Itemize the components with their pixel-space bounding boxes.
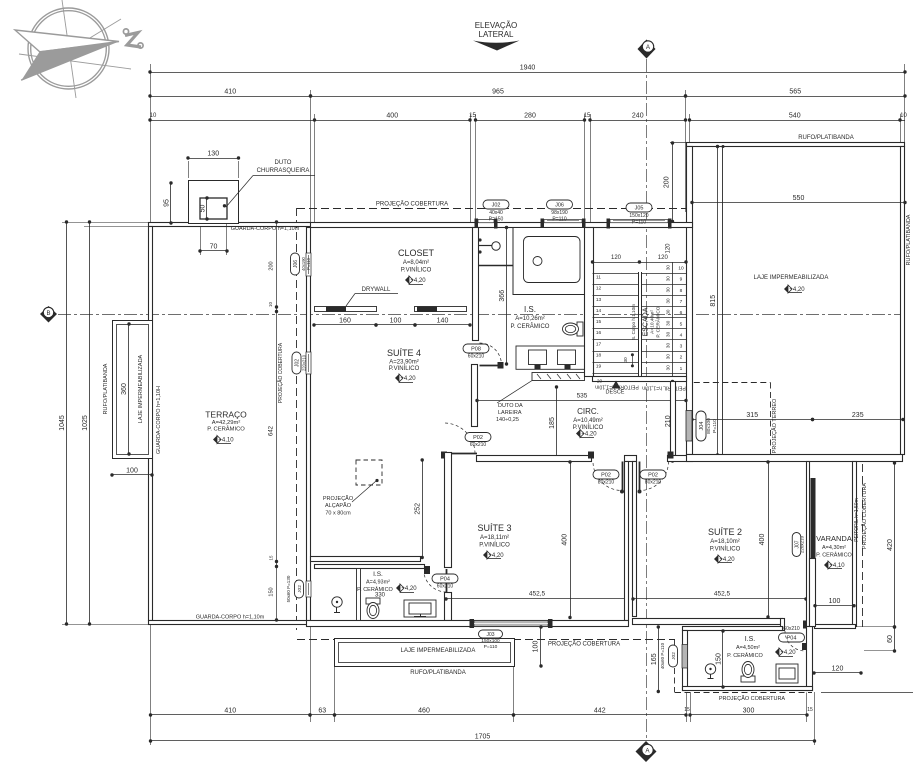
svg-text:80x100: 80x100	[706, 418, 712, 434]
varanda left wall	[807, 462, 813, 691]
svg-text:565: 565	[789, 89, 801, 96]
svg-text:LAREIRA: LAREIRA	[498, 410, 522, 416]
svg-text:PROJEÇÃO COBERTURA: PROJEÇÃO COBERTURA	[277, 342, 284, 403]
window J04 laje left wall	[686, 411, 718, 442]
door P04 bath2	[424, 569, 458, 592]
svg-text:70: 70	[210, 244, 218, 251]
svg-text:100: 100	[126, 468, 138, 475]
svg-text:150: 150	[269, 587, 275, 596]
svg-text:50x60 P=130: 50x60 P=130	[286, 575, 291, 602]
svg-text:LAJE IMPERMEABILIZADA: LAJE IMPERMEABILIZADA	[754, 275, 829, 281]
svg-text:7: 7	[680, 299, 683, 305]
svg-text:P02: P02	[648, 473, 658, 479]
dim 1045 left	[59, 220, 68, 625]
svg-text:30: 30	[666, 287, 671, 293]
varanda bottom wall	[810, 559, 856, 629]
svg-text:A=4,93m²: A=4,93m²	[366, 580, 390, 586]
bath1 lareira shelf	[532, 373, 585, 381]
svg-text:PROJEÇÃO: PROJEÇÃO	[323, 495, 354, 502]
svg-text:1025: 1025	[82, 415, 89, 431]
projecao alcapao	[323, 460, 382, 517]
svg-text:SUÍTE 3: SUÍTE 3	[477, 523, 511, 533]
svg-text:+4,10: +4,10	[829, 563, 845, 569]
svg-text:165: 165	[651, 653, 658, 665]
label rufo bottom	[410, 670, 466, 676]
svg-text:P. CERÂMICO: P. CERÂMICO	[207, 426, 245, 433]
dim 442 bottom	[512, 708, 688, 717]
svg-text:S. Corpo h.1,10m: S. Corpo h.1,10m	[631, 304, 636, 340]
svg-text:+4,20: +4,20	[488, 553, 504, 559]
window left wall upper	[291, 253, 312, 276]
svg-text:30: 30	[666, 320, 671, 326]
window J07 varanda	[792, 478, 815, 559]
svg-text:1940: 1940	[520, 65, 536, 72]
suites top wall	[477, 455, 903, 462]
section line A vertical dashed	[646, 59, 648, 738]
label peitoril varanda	[854, 498, 860, 542]
dim 540 top	[688, 113, 908, 122]
svg-text:SUÍTE 4: SUÍTE 4	[387, 348, 421, 358]
svg-text:J02: J02	[492, 203, 501, 209]
dashed projecao cobertura bottom	[297, 640, 675, 648]
svg-text:80x210: 80x210	[645, 480, 662, 486]
dim 95 chimney	[164, 181, 173, 224]
svg-text:815: 815	[710, 295, 717, 307]
svg-text:ELEVAÇÃO: ELEVAÇÃO	[475, 21, 518, 30]
svg-text:60x210: 60x210	[783, 626, 800, 632]
svg-text:A=23,90m²: A=23,90m²	[389, 360, 419, 366]
svg-text:18: 18	[596, 352, 602, 358]
svg-text:30: 30	[623, 357, 629, 363]
svg-text:P08: P08	[471, 347, 481, 353]
svg-text:315: 315	[746, 412, 758, 419]
svg-text:RUFO/PLATIBANDA: RUFO/PLATIBANDA	[410, 670, 466, 676]
svg-text:410: 410	[224, 708, 236, 715]
label projecao terreo	[771, 398, 778, 453]
label guarda-corpo top	[231, 226, 300, 232]
dashed projecao cobertura right	[861, 464, 868, 627]
svg-text:A=10,26m²: A=10,26m²	[515, 316, 545, 322]
svg-text:150x120: 150x120	[629, 213, 648, 219]
svg-text:+4,20: +4,20	[789, 287, 805, 293]
label projecao cobertura vertical left	[277, 342, 284, 403]
svg-text:200: 200	[664, 176, 671, 188]
bath3 walls	[683, 627, 813, 691]
svg-text:30: 30	[666, 354, 671, 360]
dim 315 laje	[690, 412, 814, 421]
dim 300 bottom	[684, 707, 813, 717]
svg-text:RUFO/PLATIBANDA: RUFO/PLATIBANDA	[103, 363, 109, 414]
room label VARANDA	[816, 534, 852, 569]
dim 100 strip	[110, 468, 153, 477]
svg-text:P.VINÍLICO: P.VINÍLICO	[389, 365, 420, 372]
svg-text:400: 400	[562, 534, 569, 546]
dim row 160 100 140	[312, 318, 471, 327]
svg-text:235: 235	[852, 412, 864, 419]
bath2 shower drain	[332, 597, 342, 613]
svg-text:300: 300	[743, 708, 755, 715]
svg-text:420: 420	[887, 539, 894, 551]
suite3 left wall	[445, 453, 452, 621]
svg-text:A=10,40m²: A=10,40m²	[650, 310, 656, 334]
stairs bottom wall	[593, 377, 687, 382]
dim 565 top	[684, 89, 907, 98]
stair number 20	[597, 379, 603, 385]
room label SUITE 2	[708, 527, 742, 563]
window J05 opening	[607, 219, 672, 229]
svg-text:A=18,10m²: A=18,10m²	[710, 539, 740, 545]
svg-text:360: 360	[121, 383, 128, 395]
stair treads right flight	[642, 274, 687, 374]
svg-text:240: 240	[632, 113, 644, 120]
room label CIRC	[573, 407, 604, 438]
svg-text:30: 30	[666, 298, 671, 304]
svg-text:1705: 1705	[475, 734, 491, 741]
stair treads left flight	[593, 274, 640, 374]
svg-text:P=110: P=110	[552, 217, 566, 223]
svg-text:120: 120	[658, 255, 669, 261]
svg-text:30: 30	[666, 365, 671, 371]
svg-text:PROJEÇÃO TERREO: PROJEÇÃO TERREO	[771, 398, 778, 453]
dim 185 circ	[549, 385, 558, 460]
svg-text:19: 19	[596, 364, 602, 370]
dim 420 varanda	[887, 461, 896, 628]
svg-text:120: 120	[611, 255, 622, 261]
svg-text:P.VINÍLICO: P.VINÍLICO	[710, 546, 741, 553]
svg-text:+4,20: +4,20	[719, 557, 735, 563]
svg-text:63: 63	[318, 708, 326, 715]
svg-text:410: 410	[224, 89, 236, 96]
svg-text:60: 60	[887, 635, 894, 643]
svg-text:GUARDA-CORPO h=1,10m: GUARDA-CORPO h=1,10m	[231, 226, 300, 232]
dim 400 suite2	[759, 460, 770, 618]
svg-text:452,5: 452,5	[714, 591, 731, 598]
svg-text:A=4,30m²: A=4,30m²	[822, 545, 846, 551]
svg-text:13: 13	[596, 297, 602, 303]
svg-text:J03: J03	[486, 632, 494, 638]
svg-text:DESCE: DESCE	[606, 390, 625, 396]
svg-text:GUARDA-CORPO h=1,10H: GUARDA-CORPO h=1,10H	[156, 386, 162, 454]
svg-text:+4,10: +4,10	[218, 438, 234, 444]
dim 100 varanda	[813, 598, 855, 607]
svg-text:PROJEÇÃO COBERTURA: PROJEÇÃO COBERTURA	[719, 695, 786, 702]
svg-text:185: 185	[549, 417, 556, 429]
svg-text:220x210: 220x210	[302, 354, 307, 371]
svg-text:14: 14	[596, 308, 602, 314]
window J06 opening	[541, 219, 586, 229]
dim 410 bottom	[149, 708, 312, 717]
dim 410 top	[148, 89, 312, 98]
window left wall lower	[286, 575, 311, 602]
window J02 opening	[475, 219, 498, 229]
svg-text:140: 140	[437, 318, 449, 325]
dim 165 bath3	[651, 625, 660, 693]
label guarda-corpo bottom	[196, 615, 265, 621]
label guarda-corpo vertical	[156, 386, 162, 454]
dim 200 laje	[664, 141, 687, 223]
svg-text:J04: J04	[699, 422, 705, 431]
svg-text:30: 30	[666, 276, 671, 282]
svg-text:+4,20: +4,20	[400, 376, 416, 382]
svg-text:DRYWALL: DRYWALL	[362, 287, 391, 293]
svg-text:J02: J02	[297, 585, 303, 593]
label drywall	[346, 287, 398, 306]
svg-text:40x40: 40x40	[489, 210, 503, 216]
dim 120 120 stairs	[591, 243, 688, 264]
svg-text:540: 540	[789, 113, 801, 120]
dim 235 laje	[811, 412, 905, 421]
svg-text:5: 5	[680, 321, 683, 327]
bath1 right wall	[585, 228, 594, 377]
window J03 suite3	[470, 619, 553, 628]
svg-text:10: 10	[678, 266, 684, 272]
dim extension lines top	[151, 64, 905, 227]
svg-text:TERRAÇO: TERRAÇO	[205, 410, 247, 420]
svg-text:P02: P02	[601, 473, 611, 479]
dim 452,5 suite2	[631, 591, 807, 601]
svg-text:+4,20: +4,20	[780, 650, 796, 656]
room label IS3	[727, 636, 796, 659]
svg-text:16: 16	[596, 330, 602, 336]
label rufo/platibanda right	[906, 214, 912, 265]
svg-text:J02: J02	[671, 652, 677, 660]
stair numbers left	[596, 275, 602, 370]
dashed projecao cobertura top left	[297, 201, 687, 631]
stair cells divider	[672, 262, 674, 378]
fireplace duct wall	[472, 365, 478, 427]
svg-text:A=8,04m²: A=8,04m²	[403, 260, 429, 266]
dim 130 chimney	[186, 151, 240, 179]
dim 50 chimney	[200, 196, 209, 220]
label laje strip	[138, 354, 144, 423]
dim 150 bath3	[716, 629, 725, 688]
varanda right wall	[853, 462, 857, 627]
room label TERRACO	[205, 410, 247, 444]
svg-text:P.VINÍLICO: P.VINÍLICO	[573, 424, 604, 431]
window left wall middle	[292, 352, 311, 374]
svg-text:140÷0,25: 140÷0,25	[496, 417, 519, 423]
svg-text:1045: 1045	[59, 415, 66, 431]
laje inner line	[722, 145, 725, 455]
svg-text:LAJE IMPERMEABILIZADA: LAJE IMPERMEABILIZADA	[401, 648, 476, 654]
bath1 niche washbasin	[478, 238, 500, 253]
dim 120 varanda	[812, 666, 862, 675]
svg-text:PEITORIL h=1,50m: PEITORIL h=1,50m	[854, 498, 860, 542]
bath3 pedestal sink	[705, 664, 715, 679]
dim extension lines left	[62, 223, 150, 625]
svg-text:30: 30	[666, 265, 671, 271]
bath3 toilet	[741, 662, 755, 683]
svg-text:1: 1	[680, 366, 683, 372]
label laje impermeabilizada	[754, 275, 829, 281]
dim chain left wall 200/642/150	[268, 220, 278, 621]
dim 210 circ right	[665, 380, 674, 463]
svg-text:VARANDA: VARANDA	[816, 534, 852, 543]
section line B horizontal dashed	[58, 314, 903, 316]
svg-text:60x210: 60x210	[468, 354, 485, 360]
room label SUITE 4	[387, 348, 421, 383]
dim 815 laje	[710, 145, 719, 457]
svg-text:60x210: 60x210	[437, 584, 454, 590]
room label IS2	[357, 571, 417, 593]
lower laje strip	[335, 639, 515, 667]
svg-text:452,5: 452,5	[529, 591, 546, 598]
svg-text:DUTO DA: DUTO DA	[498, 403, 523, 409]
svg-text:400: 400	[759, 534, 766, 546]
desce arrow	[606, 381, 625, 396]
stairs labels	[631, 304, 662, 340]
svg-text:366: 366	[499, 290, 506, 302]
door P08 suite4/bath1	[463, 343, 504, 369]
svg-text:LATERAL: LATERAL	[479, 30, 515, 39]
building left wall	[307, 228, 311, 621]
svg-text:80x210: 80x210	[598, 480, 615, 486]
section marker A top	[638, 40, 656, 59]
svg-text:A=4,50m²: A=4,50m²	[736, 645, 760, 651]
svg-text:A=18,11m²: A=18,11m²	[480, 535, 509, 541]
bath2 tv cabinet	[404, 600, 436, 617]
left planter strip	[113, 321, 153, 459]
svg-text:P04: P04	[440, 577, 450, 583]
suite2 bottom wall	[633, 619, 808, 631]
svg-text:160: 160	[339, 318, 351, 325]
pill J02	[483, 200, 509, 223]
closet drywall partition	[315, 307, 467, 313]
dim 400 suite3	[562, 460, 572, 619]
svg-text:+4,20: +4,20	[410, 278, 426, 284]
svg-text:PEITORIL h=1,10m: PEITORIL h=1,10m	[642, 385, 686, 391]
dim 535 circ	[475, 393, 687, 403]
room label CLOSET	[398, 248, 435, 285]
terrace guard walls	[149, 223, 311, 625]
svg-text:A=42,29m²: A=42,29m²	[212, 420, 241, 426]
label rufo strip	[103, 363, 109, 414]
svg-text:15: 15	[596, 319, 602, 325]
svg-text:150: 150	[716, 653, 723, 665]
suite4 bottom wall	[311, 557, 421, 562]
dim 452,5 suite3	[444, 591, 628, 601]
svg-text:10: 10	[268, 302, 273, 308]
bath2 toilet	[366, 598, 380, 619]
svg-text:6: 6	[680, 310, 683, 316]
stair numbers right	[678, 266, 684, 372]
svg-text:8: 8	[680, 288, 683, 294]
dim 1940	[148, 65, 906, 74]
section marker B left	[40, 306, 57, 323]
svg-text:P=110: P=110	[306, 257, 311, 270]
svg-text:LAJE IMPERMEABILIZADA: LAJE IMPERMEABILIZADA	[138, 354, 144, 423]
dim 1025 left	[82, 220, 91, 625]
door P02 suite3 left	[441, 423, 491, 459]
svg-text:15: 15	[684, 707, 690, 713]
divider wall	[625, 462, 637, 621]
dim 550 laje	[690, 195, 906, 204]
dim row 400/280/240	[148, 113, 687, 122]
svg-text:DUTO: DUTO	[275, 160, 292, 166]
door P02 suite2	[638, 452, 674, 494]
door P04 bath3	[779, 626, 807, 651]
section marker A bottom	[636, 741, 657, 762]
dim 100 bottom	[533, 625, 543, 667]
svg-text:A=10,49m²: A=10,49m²	[573, 418, 603, 424]
svg-text:4: 4	[680, 332, 683, 338]
elevation marker ELEVACAO LATERAL	[473, 21, 520, 51]
svg-text:CIRC.: CIRC.	[577, 407, 599, 416]
svg-text:2: 2	[680, 355, 683, 361]
svg-text:PROJEÇÃO COBERTURA: PROJEÇÃO COBERTURA	[376, 201, 448, 208]
label peitoril stairs	[595, 384, 686, 391]
svg-text:I.S.: I.S.	[524, 305, 536, 314]
level marker laje +4,20	[784, 285, 805, 293]
svg-text:280: 280	[524, 113, 536, 120]
dashed projecao cobertura bath3	[675, 640, 813, 703]
svg-text:P. CERÂMICO: P. CERÂMICO	[655, 306, 662, 337]
bath1 double vanity	[516, 346, 585, 369]
svg-text:30: 30	[666, 309, 671, 315]
divider wall top piece	[625, 456, 637, 462]
stair 30 labels	[623, 265, 671, 371]
bath3 vanity	[776, 664, 798, 683]
svg-text:965: 965	[492, 89, 504, 96]
window bath3 left	[660, 642, 688, 669]
svg-text:P=110: P=110	[632, 220, 646, 226]
svg-text:50: 50	[200, 205, 207, 213]
svg-text:12: 12	[596, 286, 602, 292]
svg-text:J06: J06	[293, 260, 299, 268]
dim 70 chimney	[198, 223, 228, 255]
svg-text:442: 442	[594, 708, 606, 715]
svg-text:120: 120	[832, 666, 844, 673]
svg-text:460: 460	[418, 708, 430, 715]
svg-text:642: 642	[269, 425, 275, 436]
svg-text:330: 330	[375, 593, 386, 599]
svg-text:RUFO/PLATIBANDA: RUFO/PLATIBANDA	[798, 135, 854, 141]
dim 63 bottom	[308, 708, 336, 717]
svg-text:550: 550	[793, 195, 805, 202]
dim 60 varanda	[857, 625, 897, 652]
svg-text:P=150: P=150	[489, 217, 504, 223]
label rufo/platibanda top	[798, 135, 854, 141]
dim 460 bottom	[333, 708, 515, 717]
svg-text:130: 130	[207, 151, 219, 158]
svg-text:10: 10	[900, 113, 907, 119]
svg-text:B: B	[46, 311, 50, 317]
svg-text:P.VINÍLICO: P.VINÍLICO	[401, 267, 432, 274]
svg-text:17: 17	[596, 341, 602, 347]
svg-text:P=110: P=110	[712, 419, 718, 433]
stair stringer	[639, 272, 642, 378]
svg-text:120: 120	[666, 243, 672, 254]
svg-text:ALÇAPÃO: ALÇAPÃO	[325, 502, 352, 509]
line right edge	[821, 692, 913, 694]
door P02 suite3 right	[588, 452, 624, 494]
pill J03	[479, 630, 503, 650]
bath1 bathtub	[513, 228, 585, 295]
room label SUITE 3	[477, 523, 511, 559]
svg-text:70 x 80cm: 70 x 80cm	[325, 511, 351, 517]
svg-text:3: 3	[680, 344, 683, 350]
room label IS1	[511, 305, 550, 330]
svg-text:I.S.: I.S.	[373, 571, 383, 578]
svg-text:J05: J05	[635, 206, 644, 212]
svg-text:60x210: 60x210	[470, 442, 487, 448]
svg-text:P.VINÍLICO: P.VINÍLICO	[479, 542, 510, 549]
svg-text:+4,20: +4,20	[401, 586, 417, 592]
svg-text:9: 9	[680, 277, 683, 283]
svg-text:P02: P02	[473, 435, 483, 441]
svg-text:252: 252	[415, 503, 422, 515]
bottom wall main	[307, 621, 629, 627]
